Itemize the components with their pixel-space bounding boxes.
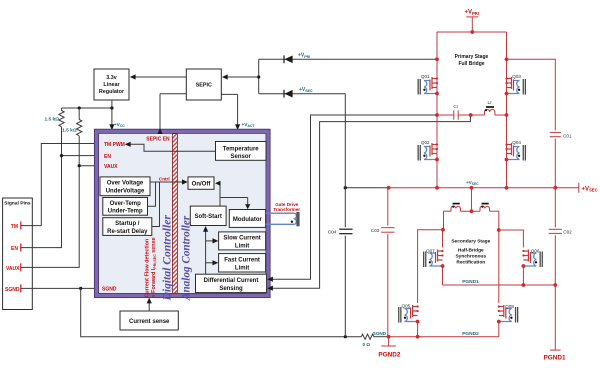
- svg-text:SGND: SGND: [373, 331, 387, 336]
- svg-text:C03: C03: [371, 228, 380, 233]
- resistor R2 1.5 kOhm: [62, 108, 82, 166]
- svg-text:VAUX: VAUX: [104, 164, 118, 170]
- svg-text:C02: C02: [563, 229, 572, 234]
- svg-text:Over-Temp: Over-Temp: [110, 201, 142, 207]
- capacitor C02: [549, 229, 572, 234]
- svg-text:EN: EN: [11, 246, 18, 252]
- transformer T1 gate drive winding: [291, 212, 300, 226]
- svg-text:Limit: Limit: [235, 244, 249, 250]
- svg-text:Q02: Q02: [421, 140, 430, 145]
- capacitor Cr: [453, 104, 458, 120]
- svg-text:Re-start Delay: Re-start Delay: [107, 229, 148, 235]
- svg-text:Q03: Q03: [512, 74, 521, 79]
- svg-text:EN: EN: [104, 154, 111, 160]
- box Signal Pins: [3, 198, 33, 310]
- svg-text:Startup /: Startup /: [115, 221, 140, 227]
- svg-text:PGND1: PGND1: [462, 279, 479, 285]
- wire SEPIC EN up to SEPIC: [160, 94, 186, 129]
- wire +Vpri sense line: [259, 58, 437, 60]
- pin SGND: [5, 284, 21, 292]
- converter SEPIC: [186, 69, 221, 100]
- capacitor C03: [371, 228, 395, 233]
- box Modulator: [229, 210, 265, 228]
- barrier hatched isolation strip: [172, 134, 177, 294]
- wire analog bus Soft-Start to DCS: [203, 226, 208, 274]
- wire secondary center tap drop: [470, 188, 474, 213]
- svg-text:Cntrl: Cntrl: [159, 176, 170, 181]
- svg-text:PGND1: PGND1: [543, 354, 565, 361]
- wire PGND2 line: [387, 335, 499, 339]
- ground PGND1: [543, 350, 565, 361]
- pin EN: [11, 244, 21, 252]
- wire diode node to SEPIC input: [222, 74, 259, 79]
- controller U1 main block: [94, 129, 270, 297]
- pin TM: [11, 222, 21, 230]
- svg-text:TM PWM: TM PWM: [104, 142, 125, 148]
- capacitor C01: [550, 132, 572, 187]
- wire Modulator gate drive blue lower: [266, 223, 295, 225]
- inductor secondary winding right: [480, 204, 490, 212]
- arrow SEPIC EN into border: [157, 128, 162, 134]
- svg-text:Full Bridge: Full Bridge: [458, 61, 484, 67]
- svg-text:PGND2: PGND2: [462, 331, 479, 337]
- svg-text:Half-Bridge: Half-Bridge: [458, 248, 484, 254]
- svg-text:SEPIC: SEPIC: [196, 83, 212, 89]
- label Gate Drive Transformer: [273, 202, 300, 212]
- svg-text:1.5 kΩ: 1.5 kΩ: [62, 128, 77, 134]
- wire secondary top edge: [444, 210, 499, 212]
- svg-text:Q08: Q08: [505, 304, 514, 309]
- svg-text:Q01: Q01: [421, 74, 430, 79]
- wire C04 column: [344, 94, 346, 337]
- svg-text:SGND: SGND: [102, 287, 117, 293]
- wire Current sense to controller: [147, 298, 152, 311]
- wire PGND1 bottom edge: [443, 283, 558, 287]
- pin VAUX: [6, 263, 21, 271]
- wire SGND to controller: [21, 286, 103, 291]
- wire TM to controller: [21, 141, 103, 226]
- wire Modulator gate drive blue upper: [266, 212, 295, 214]
- wire branch to Q07: [418, 230, 444, 303]
- box Over-Temp Under-Temp: [103, 198, 148, 216]
- box Current sense: [120, 311, 178, 330]
- box Temperature Sensor: [216, 142, 267, 161]
- wire primary left rail: [436, 32, 438, 188]
- svg-text:Under-Temp: Under-Temp: [108, 209, 143, 215]
- box Fast Current Limit: [219, 254, 266, 272]
- svg-text:Temperature: Temperature: [223, 146, 260, 152]
- transistor Q05: [398, 305, 419, 323]
- transistor Q02: [418, 143, 439, 161]
- wire +Vsec rail: [344, 183, 579, 193]
- transistor Q06: [522, 250, 543, 268]
- svg-text:Transformer: Transformer: [273, 207, 300, 212]
- svg-text:SGND: SGND: [5, 287, 20, 293]
- transistor Q04: [505, 143, 526, 161]
- svg-text:Q07: Q07: [426, 248, 435, 253]
- box On/Off: [188, 177, 214, 189]
- wire C02 right rail: [554, 188, 556, 350]
- svg-text:TM: TM: [11, 224, 18, 230]
- wire +Vsec sense line: [259, 93, 346, 95]
- wire Q06 to PGND1: [522, 266, 524, 285]
- ground PGND2: [378, 337, 400, 359]
- svg-text:Fast Current: Fast Current: [224, 258, 260, 264]
- node diode junction: [257, 59, 260, 93]
- label Secondary Stage block text: [451, 239, 490, 266]
- svg-text:3.3v: 3.3v: [106, 75, 117, 81]
- transistor Q03: [505, 77, 526, 95]
- svg-text:Limit: Limit: [235, 266, 249, 272]
- wire Temperature Sensor to TM PWM: [125, 142, 216, 152]
- wire primary right rail: [506, 32, 508, 188]
- wire C01 branch top: [505, 57, 556, 130]
- wire secondary right edge: [497, 211, 501, 337]
- svg-text:Sensor: Sensor: [231, 154, 252, 160]
- wire to Fast Current Limit: [206, 260, 219, 265]
- svg-text:Cr: Cr: [453, 104, 458, 109]
- svg-text:Regulator: Regulator: [99, 89, 125, 95]
- svg-text:0 Ω: 0 Ω: [363, 342, 371, 347]
- svg-text:Q05: Q05: [402, 303, 411, 308]
- resistor R3 0 Ohm shunt: [361, 334, 388, 347]
- wire SEPIC output +Vact to controller: [221, 94, 240, 130]
- transistor Q08: [497, 305, 518, 323]
- svg-text:C04: C04: [328, 230, 337, 235]
- inductor Lr: [485, 100, 495, 115]
- svg-text:Rectification: Rectification: [456, 260, 485, 266]
- svg-text:On/Off: On/Off: [192, 182, 212, 188]
- diode D2 on +Vsec line: [284, 90, 293, 98]
- wire branch to Q06: [499, 230, 524, 248]
- svg-text:Slow Current: Slow Current: [223, 236, 260, 242]
- svg-text:Modulator: Modulator: [233, 217, 263, 223]
- power symbol +Vpri: [465, 10, 480, 33]
- svg-text:Synchronous: Synchronous: [455, 254, 486, 260]
- wire Over-Temp join: [148, 182, 156, 206]
- svg-text:Current sense: Current sense: [129, 319, 170, 325]
- svg-text:Digital Controller: Digital Controller: [161, 215, 174, 302]
- node +Vpri sense tap: [435, 57, 439, 61]
- wire primary top rail: [437, 30, 507, 34]
- wire EN to controller: [21, 153, 103, 248]
- wire On/Off to Soft-Start Modulator node: [215, 181, 250, 210]
- box Slow Current Limit: [219, 232, 266, 250]
- svg-text:Linear: Linear: [103, 82, 120, 88]
- svg-text:SEPIC EN: SEPIC EN: [146, 136, 170, 142]
- wire to Slow Current Limit: [206, 238, 219, 243]
- wire Q05 to PGND2: [417, 322, 419, 338]
- svg-text:Q04: Q04: [512, 140, 521, 145]
- wire SGND bottom return: [81, 288, 362, 336]
- wire Cntrl bus to On/Off: [150, 179, 188, 184]
- label Primary Stage Full Bridge: [455, 54, 489, 67]
- inductor secondary winding left: [451, 204, 461, 212]
- diode D1 on +Vpri line: [284, 55, 293, 63]
- svg-text:Analog Controller: Analog Controller: [181, 215, 193, 301]
- wire resonant mid line: [435, 113, 508, 117]
- wire +Vcc pull-up rail: [62, 106, 114, 109]
- svg-text:PGND2: PGND2: [378, 352, 400, 359]
- svg-text:1.5 kΩ: 1.5 kΩ: [44, 117, 59, 123]
- junction C04 to SGND line: [344, 335, 347, 338]
- svg-text:Primary Stage: Primary Stage: [455, 54, 489, 60]
- svg-text:UnderVoltage: UnderVoltage: [106, 189, 145, 195]
- wire VAUX to controller: [21, 163, 103, 267]
- svg-text:C01: C01: [563, 134, 572, 139]
- transistor Q07: [423, 250, 444, 268]
- box Over Voltage UnderVoltage: [100, 177, 150, 196]
- svg-text:+VPRI: +VPRI: [465, 10, 480, 16]
- wire SEPIC to regulator: [130, 74, 187, 79]
- svg-text:Soft-Start: Soft-Start: [195, 214, 222, 220]
- wire C03 column: [387, 188, 389, 337]
- svg-text:Q06: Q06: [531, 248, 540, 253]
- box Startup Re-start Delay: [103, 218, 152, 236]
- svg-text:Over Voltage: Over Voltage: [107, 181, 144, 187]
- svg-text:VAUX: VAUX: [6, 266, 20, 272]
- svg-text:Lr: Lr: [487, 100, 492, 105]
- svg-text:Differential Current: Differential Current: [204, 278, 259, 284]
- transistor Q01: [418, 77, 439, 95]
- box Differential Current Sensing: [196, 274, 267, 292]
- wire differential current sense upper: [267, 115, 437, 282]
- wire secondary left edge: [441, 211, 445, 285]
- wire Startup join: [152, 182, 160, 227]
- capacitor C04: [328, 229, 353, 234]
- resistor R1 1.5 kOhm: [44, 108, 64, 156]
- svg-text:+VSEC: +VSEC: [582, 186, 598, 192]
- svg-text:Sensing: Sensing: [219, 286, 243, 292]
- svg-text:Signal Pins: Signal Pins: [4, 201, 31, 207]
- wire regulator output +Vcc down to controller: [109, 100, 114, 130]
- svg-text:Secondary Stage: Secondary Stage: [451, 239, 490, 245]
- regulator U2 3.3v Linear Regulator: [94, 69, 129, 100]
- box Soft-Start: [190, 206, 226, 225]
- wire differential current sense lower: [267, 115, 470, 291]
- svg-text:Current Flow detection: Current Flow detection: [145, 239, 151, 298]
